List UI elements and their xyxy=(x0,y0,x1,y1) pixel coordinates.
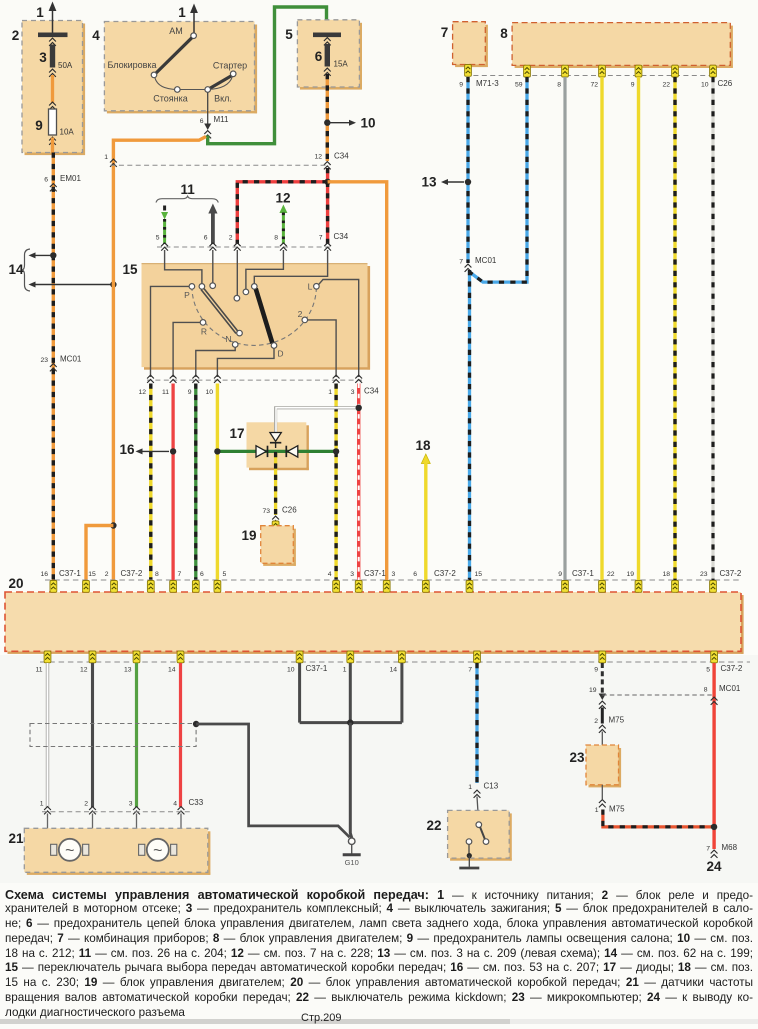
svg-text:С26: С26 xyxy=(282,506,297,515)
svg-text:15А: 15А xyxy=(334,60,349,69)
svg-text:С26: С26 xyxy=(718,79,733,88)
svg-text:73: 73 xyxy=(262,508,270,515)
junction on EM01 (node 14a) xyxy=(50,252,56,258)
svg-text:6: 6 xyxy=(44,177,48,184)
svg-text:6: 6 xyxy=(200,118,204,125)
wire diode centre yellow/black down xyxy=(274,452,277,515)
svg-text:50А: 50А xyxy=(58,61,73,70)
block 20 transmission ECU xyxy=(5,592,744,654)
svg-text:17: 17 xyxy=(229,426,244,441)
svg-text:22: 22 xyxy=(662,82,670,89)
wire C37 pin11 white xyxy=(46,663,49,807)
label 21 xyxy=(8,831,24,846)
selector contact L xyxy=(308,282,320,292)
svg-text:11: 11 xyxy=(35,667,42,674)
svg-text:N: N xyxy=(225,334,231,344)
svg-text:1: 1 xyxy=(36,5,44,20)
wire C26-22 yellow/black xyxy=(673,77,676,580)
diode D2 (right) xyxy=(256,446,268,457)
wire C37 pins10/1/14 bus to ground xyxy=(300,663,402,838)
junction node 10 xyxy=(324,120,330,126)
svg-text:Стоянка: Стоянка xyxy=(153,94,188,104)
selector contact arm2-top xyxy=(210,283,216,289)
svg-text:5: 5 xyxy=(706,667,710,674)
connector C26 dashed line xyxy=(465,75,715,77)
svg-text:7: 7 xyxy=(706,846,710,853)
arrow C34 pin5 (green, from pos.26) xyxy=(156,206,168,245)
wire M75 to block23 xyxy=(601,732,603,747)
svg-text:19: 19 xyxy=(589,687,597,694)
label 17 xyxy=(229,426,244,441)
block 23 microcomputer box xyxy=(586,745,621,787)
junction node 13 xyxy=(465,179,471,185)
svg-text:4: 4 xyxy=(173,801,177,808)
svg-text:18: 18 xyxy=(662,571,670,578)
svg-text:9: 9 xyxy=(459,82,463,89)
ignition contact Vkl xyxy=(205,87,232,104)
svg-text:8: 8 xyxy=(500,26,508,41)
svg-text:2: 2 xyxy=(594,718,598,725)
speed sensor B2 xyxy=(139,839,177,861)
svg-text:G10: G10 xyxy=(345,858,359,867)
page number xyxy=(301,1011,342,1026)
label MC01 on blue xyxy=(459,256,497,272)
svg-text:12: 12 xyxy=(314,154,322,161)
connector C34 row3 dashed line xyxy=(147,379,362,381)
wire selector P to C34-12 xyxy=(151,286,190,377)
dashed link to MC01 xyxy=(602,694,714,696)
label 5 xyxy=(285,27,293,42)
svg-text:9: 9 xyxy=(594,667,598,674)
pins block20 bottom xyxy=(44,651,717,663)
svg-text:6: 6 xyxy=(204,235,208,242)
svg-text:М75: М75 xyxy=(609,805,625,814)
chevrons C34 row3 xyxy=(147,375,362,383)
svg-text:3: 3 xyxy=(392,571,396,578)
wire shield to ground G10 xyxy=(196,724,350,837)
wire fuse3-fuse9 orange xyxy=(49,75,56,110)
label 19 xyxy=(241,528,256,543)
wire selector 2 to C34-1 xyxy=(308,320,337,377)
wire sensor2 lead a xyxy=(137,814,139,849)
svg-text:15: 15 xyxy=(88,571,96,578)
wire C37-2 pin5 red (MC01/M68) xyxy=(712,663,715,849)
wire C26-10 gray/black xyxy=(711,77,714,580)
block 17 diode box xyxy=(247,422,309,470)
junction green-yellow left xyxy=(214,448,220,454)
svg-text:8: 8 xyxy=(155,571,159,578)
svg-text:10: 10 xyxy=(205,389,213,396)
svg-text:С37-1: С37-1 xyxy=(572,569,594,578)
svg-text:24: 24 xyxy=(706,859,722,874)
label C34 row2 pins xyxy=(229,232,349,242)
wire blue/black merged to C37-2 pin15 xyxy=(468,270,471,580)
node 12 label xyxy=(275,191,290,206)
svg-text:3: 3 xyxy=(351,389,355,396)
wire fuse9-out orange xyxy=(51,138,54,153)
wire M11 green to fuse6 xyxy=(208,7,327,144)
selector position arc dashed xyxy=(192,286,317,345)
svg-text:5: 5 xyxy=(156,235,160,242)
labels C34 row3 xyxy=(138,387,379,397)
junction on orange wire (node 14b) xyxy=(110,281,116,287)
pin C26-73 xyxy=(272,521,279,533)
arrow node 13 (see pos.3) xyxy=(421,175,464,190)
label 15 xyxy=(122,262,138,277)
wire C34-9 green/black to C37 pin6 xyxy=(194,384,197,581)
ignition contact AM xyxy=(169,26,196,39)
svg-text:8: 8 xyxy=(557,82,561,89)
svg-text:19: 19 xyxy=(241,528,256,543)
svg-text:9: 9 xyxy=(631,82,635,89)
arrow C34 pin8 (green, from pos.7) xyxy=(274,205,287,245)
svg-text:МС01: МС01 xyxy=(60,355,82,364)
svg-text:1: 1 xyxy=(178,5,186,20)
wire block23 out xyxy=(601,785,603,799)
svg-text:3: 3 xyxy=(129,801,133,808)
arrow node 10 (to interior lamp) xyxy=(327,116,375,131)
arrow node 18 (see pos.15) xyxy=(415,438,431,580)
svg-text:Вкл.: Вкл. xyxy=(214,94,232,104)
ignition arc xyxy=(155,77,233,90)
wire C37 pin13 green xyxy=(135,663,138,807)
wire sensor1 lead b xyxy=(89,814,93,847)
svg-text:59: 59 xyxy=(515,82,523,89)
pins blocks 7/8 xyxy=(465,65,717,78)
svg-text:С37-2: С37-2 xyxy=(721,664,743,673)
connector C34 row2 dashed line xyxy=(157,246,331,248)
chevron M75 pin2 top xyxy=(599,701,606,709)
selector contact c2 xyxy=(243,289,249,295)
wire red/black C34-7 down xyxy=(326,182,329,244)
svg-text:EM01: EM01 xyxy=(60,174,81,183)
svg-text:23: 23 xyxy=(569,750,585,765)
svg-text:D: D xyxy=(277,349,283,359)
label M75 pin1 xyxy=(595,800,625,814)
wire M71-3 blue/black down xyxy=(466,77,469,263)
svg-text:С37-2: С37-2 xyxy=(720,569,742,578)
wire C26-59 blue/black jog xyxy=(470,77,528,282)
svg-text:13: 13 xyxy=(124,667,132,674)
svg-text:15: 15 xyxy=(122,262,138,277)
connector C33 dashed line xyxy=(42,811,190,813)
selector wiper bar 2 (D engaged) xyxy=(256,289,273,344)
svg-text:13: 13 xyxy=(421,175,437,190)
selector contact N xyxy=(225,334,238,347)
caption text block xyxy=(5,888,753,1021)
wire C37 pin9 black/dashed xyxy=(601,663,604,693)
svg-text:С34: С34 xyxy=(334,152,349,161)
block 5 cabin fuse box xyxy=(297,20,362,90)
ignition lever Starter-Vkl xyxy=(210,76,231,88)
wire selector R to C34-11 xyxy=(173,322,200,377)
wire green through diode box xyxy=(217,450,336,453)
svg-text:10А: 10А xyxy=(60,128,75,137)
svg-text:МС01: МС01 xyxy=(475,256,497,265)
svg-text:1: 1 xyxy=(343,667,347,674)
svg-text:М75: М75 xyxy=(609,716,625,725)
selector contact D xyxy=(271,343,283,359)
selector contact c3 xyxy=(252,284,258,290)
wire sensor2 lead b xyxy=(177,814,181,850)
wire C37 pin14 red xyxy=(179,663,182,807)
svg-text:L: L xyxy=(308,282,313,292)
svg-text:7: 7 xyxy=(178,571,182,578)
svg-text:22: 22 xyxy=(426,818,441,833)
ignition contact Stoyanka xyxy=(153,87,188,104)
svg-text:15: 15 xyxy=(475,571,483,578)
fuse F9 10A xyxy=(35,109,74,145)
svg-text:М71-3: М71-3 xyxy=(476,79,499,88)
label M75 pin2 xyxy=(594,716,624,733)
junction orange to pin15 branch xyxy=(110,522,116,528)
fuse F3 50A xyxy=(38,33,73,77)
node 14 reference arrows xyxy=(8,249,111,291)
svg-text:4: 4 xyxy=(328,571,332,578)
svg-text:7: 7 xyxy=(468,667,472,674)
svg-text:МС01: МС01 xyxy=(719,684,741,693)
svg-text:М11: М11 xyxy=(214,115,230,124)
svg-text:23: 23 xyxy=(40,357,48,364)
wire C34-12 red/black down xyxy=(326,168,329,182)
svg-text:12: 12 xyxy=(80,667,88,674)
svg-text:7: 7 xyxy=(441,25,449,40)
block 21 speed sensors box xyxy=(24,828,210,875)
svg-text:3: 3 xyxy=(350,571,354,578)
svg-text:5: 5 xyxy=(223,571,227,578)
svg-text:С33: С33 xyxy=(189,798,204,807)
diode D3 (left) xyxy=(286,446,298,457)
label C26 pin73 xyxy=(262,506,297,524)
svg-text:21: 21 xyxy=(8,831,24,846)
wire orange to C37-2 pin3 xyxy=(328,182,387,580)
svg-text:72: 72 xyxy=(590,82,598,89)
svg-text:С37-2: С37-2 xyxy=(434,569,456,578)
svg-text:М68: М68 xyxy=(722,843,738,852)
wire C13 to switch 22 xyxy=(477,797,479,823)
svg-text:4: 4 xyxy=(92,28,100,43)
wire selector L to C34-3 xyxy=(319,280,359,378)
ground (kickdown) xyxy=(459,867,479,870)
connector dashed line below block20 xyxy=(40,661,750,663)
svg-text:22: 22 xyxy=(607,571,615,578)
selector wiper bar 1 xyxy=(201,288,238,334)
wire C34-2 to selector contact c1 xyxy=(236,250,238,295)
svg-text:2: 2 xyxy=(298,309,303,319)
wire selector N to C34-9 xyxy=(196,347,235,377)
label 7 xyxy=(441,25,449,40)
wire C37 pin7 blue/black to C13 xyxy=(475,663,478,783)
svg-text:14: 14 xyxy=(389,667,397,674)
svg-text:1: 1 xyxy=(468,784,472,791)
svg-text:20: 20 xyxy=(8,576,23,591)
wire diode top gray/white xyxy=(276,408,359,432)
svg-text:С37-1: С37-1 xyxy=(306,664,328,673)
block 4 ignition switch box xyxy=(104,22,257,114)
wire EM01 orange/black (to C37-1 pin16) xyxy=(44,153,81,581)
svg-text:~: ~ xyxy=(65,843,74,860)
label 2 xyxy=(12,28,20,43)
junction gray wire on red/white xyxy=(356,405,362,411)
label 8 xyxy=(500,26,508,41)
block 8 engine ECU xyxy=(512,23,733,68)
junction shield to ground wire xyxy=(193,721,199,727)
svg-text:С37-1: С37-1 xyxy=(59,569,81,578)
svg-text:6: 6 xyxy=(200,571,204,578)
wire C26-8 gray xyxy=(563,77,566,580)
svg-text:С37-1: С37-1 xyxy=(364,569,386,578)
svg-text:10: 10 xyxy=(360,116,375,131)
connector C34 row1 dashed line xyxy=(111,164,330,166)
arrow node 1 (ignition AM feed) xyxy=(178,4,198,35)
svg-text:8: 8 xyxy=(704,687,708,694)
junction green-yellowblack right xyxy=(333,448,339,454)
fuse F6 15A xyxy=(313,33,348,76)
labels connector C33 xyxy=(40,798,204,808)
wire C26-72 yellow xyxy=(600,77,603,580)
svg-text:Стартер: Стартер xyxy=(213,61,247,71)
svg-text:7: 7 xyxy=(319,235,323,242)
svg-text:С34: С34 xyxy=(364,387,379,396)
svg-text:5: 5 xyxy=(285,27,293,42)
labels pins M71-3 / C26 xyxy=(459,79,733,89)
selector contact arm-top xyxy=(199,284,205,290)
wire selector D to C34-10 xyxy=(217,348,274,377)
svg-text:9: 9 xyxy=(35,118,43,133)
block 22 kickdown switch box xyxy=(448,810,512,860)
svg-text:2: 2 xyxy=(229,235,233,242)
arrow node 1 (power feed left) xyxy=(36,2,56,34)
wire C34-6 to selector arm xyxy=(212,250,214,283)
wire Vkl to M11 xyxy=(200,92,229,138)
svg-text:1: 1 xyxy=(40,801,44,808)
label C13 pin1 xyxy=(468,782,499,798)
svg-text:9: 9 xyxy=(188,389,192,396)
labels block20 top pins xyxy=(40,569,741,578)
block 15 gear selector box xyxy=(142,263,371,370)
wire orange branch to C37-2 pin15 xyxy=(86,526,113,581)
svg-text:8: 8 xyxy=(274,235,278,242)
svg-text:16: 16 xyxy=(119,442,135,457)
chevrons C34 row2 xyxy=(161,243,331,251)
wire M75 red/black to M68 junction xyxy=(603,810,714,827)
svg-text:9: 9 xyxy=(558,571,562,578)
svg-text:19: 19 xyxy=(626,571,634,578)
svg-text:1: 1 xyxy=(328,389,332,396)
wire fuse6 orange/black to C34-12 xyxy=(326,74,329,161)
label 23 xyxy=(569,750,585,765)
wire C34-11 red to C37 pin7 xyxy=(171,384,174,581)
label MC01 on EM01 xyxy=(40,355,81,372)
wire C34-3 red/white to C37 pin3 xyxy=(357,384,360,581)
labels block20 bottom pins xyxy=(35,664,742,674)
wire red/black horizontal to C34 pin2 xyxy=(237,182,327,244)
ground G10 xyxy=(343,838,361,867)
svg-text:7: 7 xyxy=(459,259,463,266)
svg-text:R: R xyxy=(201,327,207,337)
selector contact c1 xyxy=(234,295,240,301)
svg-text:С34: С34 xyxy=(334,232,349,241)
connector dashed line above block20 xyxy=(45,579,740,581)
wire C34-8 to selector contact c2 xyxy=(246,250,284,289)
speed sensor B1 xyxy=(51,839,89,861)
svg-text:10: 10 xyxy=(701,82,709,89)
svg-text:С37-2: С37-2 xyxy=(121,569,143,578)
label M68 pin7 xyxy=(706,843,737,858)
wire C34-5 to selector P-arm xyxy=(165,250,202,284)
svg-text:2: 2 xyxy=(84,801,88,808)
svg-text:16: 16 xyxy=(40,571,48,578)
wire C37 pin12 dark xyxy=(91,663,94,807)
wire C34-7 to selector contact c3 xyxy=(254,250,327,284)
svg-text:~: ~ xyxy=(153,843,162,860)
svg-text:18: 18 xyxy=(415,438,431,453)
wire C34-12 yellow/black to C37 pin8 xyxy=(149,384,152,581)
wire C26-9 yellow xyxy=(637,77,640,580)
svg-text:14: 14 xyxy=(168,667,176,674)
block 2 relay-fuse box xyxy=(22,21,85,156)
wire ignition orange branch (C34 pin1) xyxy=(104,137,206,581)
svg-text:11: 11 xyxy=(162,389,169,396)
label 4 xyxy=(92,28,100,43)
svg-text:11: 11 xyxy=(181,182,196,197)
svg-text:Блокировка: Блокировка xyxy=(107,60,156,70)
label C34 pin12 xyxy=(314,152,349,170)
svg-text:АМ: АМ xyxy=(169,26,183,36)
svg-text:1: 1 xyxy=(595,807,599,814)
selector contact P xyxy=(184,284,195,300)
svg-text:1: 1 xyxy=(104,154,108,161)
ignition contact Blokirovka xyxy=(107,60,156,78)
chevrons C33 xyxy=(44,807,184,815)
wire C34-1 yellow/black to C37 pin4 xyxy=(334,384,337,581)
selector contact bar1-end xyxy=(237,330,243,336)
label pin19 arrow xyxy=(589,687,606,700)
svg-text:2: 2 xyxy=(12,28,20,43)
block 19 engine ECU box xyxy=(261,526,296,566)
ignition contact Starter xyxy=(213,61,247,77)
junction M75/M68 xyxy=(711,824,717,830)
diode D1 (down) xyxy=(270,433,281,449)
svg-text:3: 3 xyxy=(39,50,47,65)
label 24 xyxy=(706,859,722,874)
svg-text:P: P xyxy=(184,290,190,300)
junction node 16 xyxy=(170,448,176,454)
svg-text:10: 10 xyxy=(287,667,295,674)
svg-text:С13: С13 xyxy=(484,782,499,791)
svg-text:2: 2 xyxy=(105,571,109,578)
selector contact R xyxy=(200,320,207,337)
junction C34-12 node xyxy=(324,179,330,185)
wire to M75 black xyxy=(601,708,604,724)
svg-text:6: 6 xyxy=(315,49,323,64)
arrow C34 pin6 (dark, to pos.26) xyxy=(204,204,218,245)
svg-text:23: 23 xyxy=(700,571,708,578)
wire C34-10 yellow to C37 pin5 xyxy=(216,384,219,581)
node 11 label and brace xyxy=(156,182,218,203)
svg-text:14: 14 xyxy=(8,262,24,277)
wire sensor1 lead a xyxy=(48,814,51,850)
selector contact 2 xyxy=(298,309,308,323)
label 20 xyxy=(8,576,23,591)
pins block20 top xyxy=(50,581,716,593)
svg-text:12: 12 xyxy=(275,191,290,206)
arrow node 16 (see pos.53) xyxy=(119,442,169,457)
svg-text:12: 12 xyxy=(138,389,146,396)
svg-text:6: 6 xyxy=(413,571,417,578)
shield dashed box xyxy=(30,724,196,747)
label MC01 pin8 xyxy=(704,684,741,705)
